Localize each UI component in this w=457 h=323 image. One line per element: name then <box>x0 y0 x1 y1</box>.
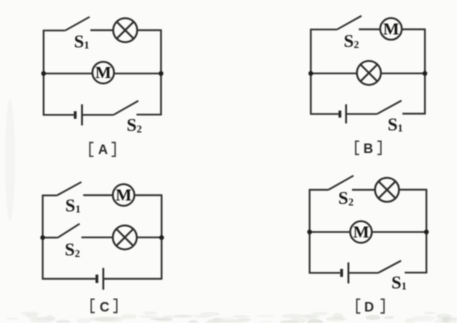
svg-text:M: M <box>383 20 399 39</box>
svg-text:M: M <box>95 63 111 82</box>
svg-text:B: B <box>363 141 373 156</box>
svg-text:D: D <box>364 299 374 314</box>
svg-text:C: C <box>100 299 110 314</box>
svg-text:M: M <box>353 223 369 242</box>
svg-text:M: M <box>116 186 132 205</box>
svg-text:A: A <box>98 142 108 157</box>
